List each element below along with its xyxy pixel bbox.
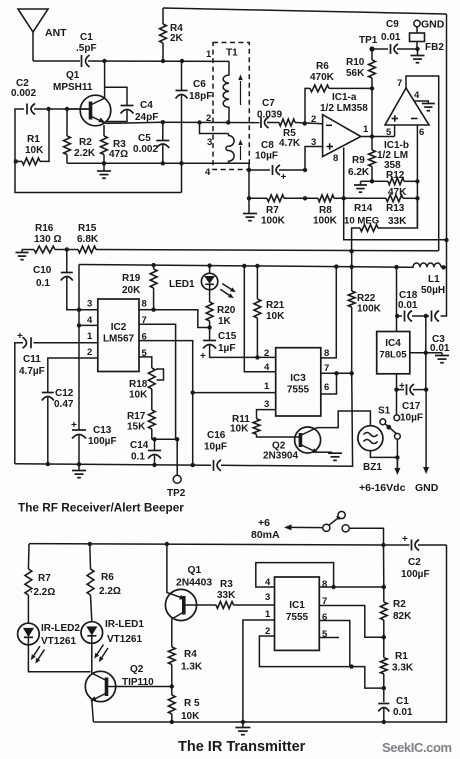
- svg-text:20K: 20K: [122, 285, 141, 296]
- svg-text:2: 2: [87, 347, 92, 358]
- label IC3 pin 3: [264, 399, 269, 410]
- svg-text:2N3904: 2N3904: [263, 451, 298, 462]
- wire pin 7 output: [406, 76, 439, 251]
- capacitor C12: [42, 358, 98, 464]
- svg-text:7: 7: [397, 78, 402, 89]
- ground R9: [354, 181, 372, 192]
- svg-text:1: 1: [265, 609, 271, 620]
- svg-text:R9: R9: [352, 155, 365, 166]
- wire pin2 to pin3: [200, 123, 229, 134]
- node R9 bottom: [370, 179, 374, 183]
- svg-text:1: 1: [206, 49, 212, 60]
- svg-text:82K: 82K: [393, 611, 412, 622]
- node right rail: [444, 238, 448, 242]
- wire pin6 down: [319, 621, 350, 667]
- svg-text:56K: 56K: [346, 68, 365, 79]
- wire pin8 step to R20 bottom: [154, 310, 210, 328]
- svg-text:R22: R22: [357, 293, 376, 304]
- node loop pin8: [331, 585, 335, 589]
- label S1: [378, 406, 391, 417]
- svg-text:R2: R2: [79, 137, 92, 148]
- svg-text:R4: R4: [184, 649, 197, 660]
- svg-text:C1: C1: [80, 32, 93, 43]
- svg-text:24pF: 24pF: [135, 112, 158, 123]
- node C12 rail: [46, 462, 50, 466]
- wire pin8 row: [319, 586, 384, 588]
- label pin 7: [397, 78, 402, 89]
- svg-text:S1: S1: [378, 406, 391, 417]
- node pin2 pin6: [349, 664, 353, 668]
- wire pin 4 ground: [415, 101, 435, 111]
- node C6 top: [180, 59, 184, 63]
- resistor R22: [348, 251, 381, 373]
- node Q1 collector top: [102, 59, 106, 63]
- transistor Q2 2N3904: [295, 427, 321, 453]
- resistor R8: [313, 195, 338, 227]
- node R2 top: [65, 107, 69, 111]
- svg-text:+: +: [200, 351, 206, 362]
- label TX pin 6: [322, 612, 327, 623]
- svg-text:R21: R21: [266, 300, 285, 311]
- label LED1: [169, 279, 195, 290]
- ferrite bead FB2: [410, 27, 445, 53]
- wire pin 5: [394, 125, 396, 137]
- label IC2 pin 2: [87, 347, 92, 358]
- label T1 pin 3: [207, 137, 212, 148]
- caption IR transmitter: [178, 739, 306, 755]
- node pin2 jumper: [197, 120, 201, 124]
- node pin4 tap: [77, 323, 81, 327]
- svg-text:L1: L1: [428, 274, 440, 285]
- node R6 R10: [370, 86, 374, 90]
- watermark SeekIC.com: [382, 740, 452, 755]
- wire R15 R16 row: [22, 250, 439, 251]
- wire IC3 pin4 from rail: [244, 266, 275, 372]
- label IC2 pin 4: [87, 315, 93, 326]
- svg-text:C11: C11: [23, 354, 41, 365]
- inductor L1: [406, 263, 447, 296]
- svg-text:3: 3: [265, 592, 270, 603]
- node C8 right: [303, 168, 307, 172]
- label Q2 TIP110: [122, 664, 154, 688]
- svg-text:BZ1: BZ1: [363, 462, 382, 473]
- svg-text:IR-LED2: IR-LED2: [41, 623, 80, 634]
- node pin1 rail: [241, 720, 245, 724]
- antenna ANT: [18, 9, 48, 61]
- svg-text:R7: R7: [266, 205, 279, 216]
- svg-text:C1: C1: [396, 696, 409, 707]
- svg-text:C15: C15: [218, 331, 237, 342]
- LED LED1: [201, 266, 235, 302]
- svg-text:100µF: 100µF: [401, 569, 430, 580]
- svg-text:470K: 470K: [310, 72, 335, 83]
- svg-text:4: 4: [264, 362, 270, 373]
- wire TP2 stub: [176, 439, 178, 475]
- svg-text:+: +: [17, 331, 23, 342]
- svg-text:10K: 10K: [25, 145, 44, 156]
- svg-text:1: 1: [87, 331, 93, 342]
- svg-text:78L05: 78L05: [379, 350, 407, 361]
- resistor R4: [160, 8, 184, 61]
- node C17 left: [394, 387, 398, 391]
- node pin8 V+: [382, 585, 386, 589]
- label TX pin 2: [265, 626, 270, 637]
- wire LED2 to Q2 collector: [28, 645, 90, 672]
- wire GND arrow: [423, 353, 429, 474]
- node R22 rail: [350, 265, 354, 269]
- svg-text:C7: C7: [262, 98, 275, 109]
- wire LED1 down: [91, 643, 93, 674]
- resistor R15: [77, 223, 99, 253]
- svg-text:C9: C9: [386, 19, 399, 30]
- node T1 pin4 right: [247, 168, 251, 172]
- svg-text:R1: R1: [395, 651, 408, 662]
- node C14 rail: [152, 463, 156, 467]
- svg-text:33K: 33K: [388, 216, 407, 227]
- resistor R3: [101, 125, 129, 163]
- svg-text:C16: C16: [207, 430, 226, 441]
- capacitor C9: [372, 19, 418, 54]
- svg-text:VT1261: VT1261: [107, 634, 142, 645]
- label IC2 pin 7: [142, 315, 147, 326]
- wire emitter row to T1 pin 2: [163, 121, 260, 123]
- svg-text:C4: C4: [140, 100, 153, 111]
- label IC3 pin 8: [324, 348, 329, 359]
- label T1 pin 2: [206, 113, 211, 124]
- svg-text:100µF: 100µF: [88, 436, 117, 447]
- svg-text:C2: C2: [408, 557, 421, 568]
- T1 secondary coil: [226, 134, 234, 164]
- capacitor C17: [397, 381, 427, 424]
- ground R16: [16, 250, 29, 260]
- node pin2 opamp: [303, 121, 307, 125]
- node R2 R1: [382, 635, 386, 639]
- wire antenna to C1: [33, 60, 80, 62]
- caption RF receiver: [18, 501, 184, 515]
- op-amp IC1-b: [385, 88, 429, 125]
- wire base node: [34, 108, 90, 110]
- node IC3 pin8 rail: [334, 264, 338, 268]
- node R12 right: [415, 179, 419, 183]
- svg-text:The IR Transmitter: The IR Transmitter: [178, 739, 306, 755]
- svg-text:LED1: LED1: [169, 279, 195, 290]
- svg-text:10K: 10K: [181, 711, 200, 722]
- label IC2 pin 5: [142, 348, 148, 359]
- wire C7 to R5: [267, 122, 279, 124]
- IC3 7555 box: [276, 348, 321, 416]
- svg-text:100K: 100K: [357, 304, 382, 315]
- LED IR-LED1: [81, 622, 108, 662]
- svg-text:GND: GND: [421, 19, 445, 31]
- ground T1 pin4: [243, 214, 257, 221]
- wire pin4 pin8 loop: [256, 563, 334, 587]
- svg-text:R18: R18: [129, 379, 148, 390]
- wire pin4 ground leg: [248, 170, 250, 214]
- label T1 pin 1: [206, 49, 212, 60]
- svg-text:0.1: 0.1: [131, 452, 145, 463]
- node R21 pin2: [255, 355, 259, 359]
- label pin 5: [386, 127, 392, 138]
- svg-text:2N4403: 2N4403: [176, 578, 212, 589]
- wire mid rail V+: [79, 265, 409, 268]
- wire top rail: [163, 8, 447, 240]
- wire IC4 output: [396, 374, 398, 390]
- svg-text:GND: GND: [415, 482, 439, 494]
- capacitor C3: [430, 311, 450, 355]
- svg-text:+: +: [402, 534, 408, 545]
- svg-text:C5: C5: [138, 133, 151, 144]
- node pin6 rail: [191, 463, 195, 467]
- wire IC4 input: [396, 267, 398, 331]
- svg-text:IR-LED1: IR-LED1: [105, 619, 144, 630]
- svg-text:TIP110: TIP110: [122, 677, 154, 688]
- svg-text:7: 7: [324, 363, 329, 374]
- node output IC1-a: [370, 134, 374, 138]
- svg-text:FB2: FB2: [425, 42, 444, 53]
- node R19 rail: [151, 263, 155, 267]
- node pin1 IC3 junction: [191, 390, 195, 394]
- svg-text:R12: R12: [386, 170, 405, 181]
- svg-text:TP1: TP1: [359, 35, 378, 46]
- svg-text:0.002: 0.002: [133, 144, 158, 155]
- resistor R7 TX: [25, 544, 55, 624]
- label +6 80mA: [251, 517, 280, 541]
- svg-text:C13: C13: [93, 425, 112, 436]
- wire pin5 stub: [319, 637, 339, 639]
- node R13 right: [415, 196, 419, 200]
- capacitor C2: [11, 78, 36, 115]
- label TX pin 7: [322, 596, 327, 607]
- node R5 rail: [170, 720, 174, 724]
- IC2 LM567 box: [98, 299, 139, 372]
- resistor R13: [386, 195, 407, 227]
- svg-text:+: +: [71, 420, 77, 431]
- node R17 C14: [152, 437, 177, 441]
- svg-text:3.3K: 3.3K: [392, 663, 414, 674]
- wire IC3 pin8 to rail: [321, 267, 337, 358]
- svg-text:R2: R2: [393, 599, 406, 610]
- op-amp IC1-a: [323, 115, 361, 157]
- svg-text:C14: C14: [130, 440, 149, 451]
- wire pin1 ground: [243, 620, 275, 722]
- label pin 6: [419, 127, 424, 138]
- svg-text:1: 1: [363, 124, 369, 135]
- svg-text:3: 3: [311, 137, 316, 148]
- svg-text:2: 2: [311, 114, 316, 125]
- ground C9: [411, 49, 425, 63]
- ground rail symbol: [72, 464, 86, 477]
- capacitor C15: [200, 331, 276, 362]
- svg-text:IC1-a: IC1-a: [332, 92, 357, 103]
- svg-text:0.47: 0.47: [54, 399, 74, 410]
- node pin7 R22: [350, 371, 354, 375]
- resistor R2 TX: [380, 587, 412, 637]
- wire V+ column: [383, 545, 385, 587]
- T1 primary coil: [223, 61, 229, 122]
- node R7 R8: [303, 196, 307, 200]
- svg-text:R8: R8: [319, 205, 332, 216]
- svg-text:VT1261: VT1261: [41, 636, 76, 647]
- node Q1t emitter top: [165, 542, 169, 546]
- svg-text:10µF: 10µF: [204, 442, 227, 453]
- svg-text:1/2 LM358: 1/2 LM358: [320, 103, 368, 114]
- label IR-LED2: [41, 623, 80, 647]
- svg-text:R 5: R 5: [184, 698, 200, 709]
- svg-text:R7: R7: [38, 573, 51, 584]
- resistor R12: [372, 170, 417, 198]
- switch S2 TX: [284, 511, 384, 545]
- svg-text:1: 1: [264, 381, 270, 392]
- svg-text:C8: C8: [261, 140, 274, 151]
- resistor R1: [14, 109, 49, 165]
- node IC4 gnd: [424, 316, 428, 355]
- wire pin2: [259, 636, 383, 688]
- svg-text:R10: R10: [346, 57, 365, 68]
- node C6 bottom: [179, 161, 183, 165]
- svg-text:1µF: 1µF: [218, 343, 235, 354]
- resistor R14: [344, 198, 417, 251]
- svg-text:4: 4: [205, 167, 211, 178]
- resistor R4 TX: [168, 647, 203, 687]
- svg-text:6: 6: [324, 382, 329, 393]
- svg-text:R1: R1: [27, 134, 40, 145]
- svg-text:Q2: Q2: [130, 664, 144, 675]
- svg-text:R13: R13: [386, 203, 405, 214]
- svg-text:2.2Ω: 2.2Ω: [99, 586, 121, 597]
- svg-text:10µF: 10µF: [400, 413, 423, 424]
- label IC1-b: [377, 140, 409, 171]
- resistor R5 TX: [168, 687, 200, 723]
- wire C2 left down: [15, 109, 182, 193]
- capacitor C5: [133, 122, 169, 163]
- svg-text:R3: R3: [220, 579, 233, 590]
- capacitor C2 TX: [401, 534, 447, 580]
- node LED1 rail: [207, 263, 211, 267]
- label pin 2: [311, 114, 316, 125]
- resistor R17: [127, 389, 155, 439]
- resistor R18: [129, 357, 155, 401]
- node supply junction: [395, 455, 399, 459]
- label T1 pin 4: [205, 167, 211, 178]
- svg-text:R19: R19: [122, 273, 141, 284]
- wire C8 to opamp pin3: [305, 147, 323, 171]
- node switch tap: [381, 543, 385, 547]
- svg-text:Q1: Q1: [188, 565, 202, 576]
- node pin8 R8: [342, 196, 346, 200]
- wire pin8 down: [343, 148, 345, 199]
- svg-text:10 MEG: 10 MEG: [344, 216, 379, 227]
- node R1 top: [46, 107, 50, 111]
- svg-text:100K: 100K: [261, 216, 286, 227]
- wire T1 pin4: [229, 163, 250, 170]
- wire IC4 ground pin: [410, 352, 442, 354]
- node V+ R14: [349, 249, 353, 253]
- node IC3 pin4 rail: [242, 264, 246, 268]
- svg-text:3: 3: [207, 137, 212, 148]
- svg-text:R6: R6: [316, 61, 329, 72]
- svg-text:+6: +6: [258, 517, 270, 529]
- node C5 top: [161, 120, 165, 124]
- wire TX top rail: [29, 544, 410, 545]
- label IC2 pin 8: [142, 299, 147, 310]
- resistor R16: [34, 223, 61, 253]
- IC1 7555 TX box: [275, 577, 320, 650]
- svg-text:8: 8: [322, 579, 327, 590]
- label pin 3: [311, 137, 316, 148]
- label IC2 pin 1: [87, 331, 93, 342]
- ground IC4: [435, 353, 449, 363]
- wire R8 net down: [344, 198, 447, 240]
- svg-text:0.002: 0.002: [11, 88, 36, 99]
- ground TX: [235, 722, 250, 735]
- svg-text:C10: C10: [33, 265, 52, 276]
- wire pin4: [79, 324, 98, 326]
- svg-text:7555: 7555: [286, 612, 309, 623]
- wire bottom emitter net: [67, 162, 229, 164]
- capacitor C6: [176, 61, 213, 193]
- wire TX right rail: [446, 545, 448, 723]
- svg-text:2: 2: [264, 348, 269, 359]
- node pin7 IC2 bottom: [175, 437, 179, 441]
- resistor R21: [254, 266, 285, 357]
- capacitor C4: [105, 87, 159, 123]
- label TX pin 4: [265, 577, 271, 588]
- node C18 left: [395, 314, 399, 318]
- node R6t top: [88, 542, 92, 546]
- svg-text:IC4: IC4: [385, 338, 401, 349]
- svg-text:ANT: ANT: [45, 27, 67, 39]
- node pin7 pin6 link: [334, 371, 338, 375]
- label IR-LED1: [105, 619, 144, 645]
- wire IC3 pin1: [193, 392, 276, 394]
- transistor Q1 2N4403: [165, 544, 216, 647]
- wire S1 to supply: [396, 439, 398, 468]
- ground Q2 emitter: [317, 452, 343, 460]
- svg-text:1K: 1K: [218, 316, 232, 327]
- svg-text:MPSH11: MPSH11: [53, 82, 93, 93]
- svg-text:Q1: Q1: [66, 70, 80, 81]
- resistor R11: [230, 414, 300, 437]
- wire pin 6 down: [416, 125, 418, 228]
- svg-text:50µH: 50µH: [421, 285, 445, 296]
- node R16 R15: [65, 247, 69, 251]
- label TX pin 8: [322, 579, 327, 590]
- svg-text:1.3K: 1.3K: [181, 662, 203, 673]
- label +6-16Vdc: [359, 482, 406, 494]
- svg-text:6.8K: 6.8K: [77, 234, 99, 245]
- T1 secondary arrow: [238, 140, 242, 161]
- wire C8 row: [249, 169, 305, 171]
- node pin3 cross: [77, 308, 81, 312]
- capacitor C14: [130, 439, 161, 465]
- resistor R19: [122, 265, 157, 310]
- node FB2 bottom: [415, 47, 419, 51]
- R18 hook: [156, 369, 164, 380]
- wire IC3 pin7: [321, 372, 352, 374]
- svg-text:0.01: 0.01: [381, 32, 401, 43]
- svg-text:2K: 2K: [170, 33, 184, 44]
- wire C1 to T1 pin 1: [88, 60, 229, 62]
- arrow +6-16Vdc: [394, 457, 400, 475]
- capacitor C13: [71, 420, 117, 464]
- svg-text:The RF Receiver/Alert Beeper: The RF Receiver/Alert Beeper: [18, 501, 184, 515]
- svg-text:8: 8: [142, 299, 147, 310]
- IC4 78L05 box: [377, 332, 410, 374]
- svg-text:+6-16Vdc: +6-16Vdc: [359, 482, 406, 494]
- svg-text:SeekIC.com: SeekIC.com: [382, 740, 452, 755]
- label IC3 pin 7: [324, 363, 329, 374]
- capacitor C1 TX: [378, 696, 413, 722]
